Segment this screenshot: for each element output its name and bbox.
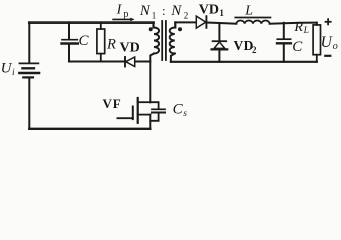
svg-text:R: R	[106, 36, 116, 52]
wire top secondary rail	[175, 21, 196, 23]
diode VD (clamp)	[125, 57, 135, 67]
transformer primary winding N1	[154, 23, 160, 54]
svg-text:s: s	[183, 109, 187, 119]
transformer polarity dot primary	[149, 27, 153, 31]
label VD2	[234, 38, 258, 55]
svg-text:i: i	[12, 68, 15, 78]
wire inductor to output	[270, 23, 317, 24]
resistor RL load	[313, 23, 320, 62]
capacitor C (snubber)	[62, 23, 78, 62]
transformer polarity dot secondary	[178, 27, 182, 31]
label Uo output voltage	[321, 34, 338, 52]
output plus terminal	[325, 18, 332, 25]
diode VD2 freewheel	[212, 23, 228, 62]
svg-text::: :	[162, 3, 166, 18]
svg-text:2: 2	[184, 10, 189, 20]
inductor L winding	[236, 20, 269, 23]
svg-text:1: 1	[152, 10, 157, 20]
resistor R (snubber)	[97, 23, 105, 62]
svg-text:VD: VD	[234, 38, 254, 53]
wire snubber bottom rail	[69, 60, 150, 62]
wire bottom primary rail	[29, 128, 150, 130]
transistor Q1 MOSFET VF	[117, 98, 150, 129]
svg-text:2: 2	[252, 45, 257, 55]
capacitor Cs snubber across MOSFET	[150, 102, 165, 121]
svg-text:N: N	[170, 3, 182, 19]
svg-text:o: o	[333, 41, 338, 52]
label RL load	[293, 20, 308, 36]
transformer secondary winding N2	[170, 22, 176, 61]
svg-text:p: p	[123, 9, 128, 20]
wire top primary rail	[29, 21, 153, 24]
svg-text:VD: VD	[120, 40, 140, 55]
svg-text:U: U	[1, 61, 13, 77]
svg-text:U: U	[321, 34, 334, 51]
inductor L core bar	[235, 17, 270, 19]
capacitor C (output)	[277, 23, 291, 62]
svg-text:VF: VF	[103, 96, 122, 111]
svg-text:R: R	[293, 20, 303, 35]
diode VD1	[196, 16, 206, 28]
wire drain node vertical (transformer bottom to MOSFET drain)	[150, 54, 154, 103]
label VD1	[199, 2, 225, 17]
svg-text:N: N	[139, 3, 151, 19]
svg-text:C: C	[79, 33, 90, 49]
svg-text:1: 1	[219, 8, 224, 18]
svg-text:VD: VD	[199, 2, 219, 17]
svg-text:C: C	[173, 102, 184, 118]
wire bottom secondary rail	[171, 61, 317, 63]
svg-text:L: L	[244, 4, 253, 19]
svg-text:C: C	[292, 39, 303, 55]
label Ip with current arrow	[112, 3, 134, 22]
svg-text:L: L	[303, 26, 309, 36]
transformer core	[162, 21, 166, 60]
label Ui	[1, 61, 15, 79]
wire VD1 to inductor	[206, 23, 236, 24]
label Cs	[173, 102, 188, 120]
voltage source U1 battery	[19, 23, 39, 129]
label N1 : N2 turns ratio	[139, 3, 189, 21]
output minus terminal	[324, 55, 331, 57]
